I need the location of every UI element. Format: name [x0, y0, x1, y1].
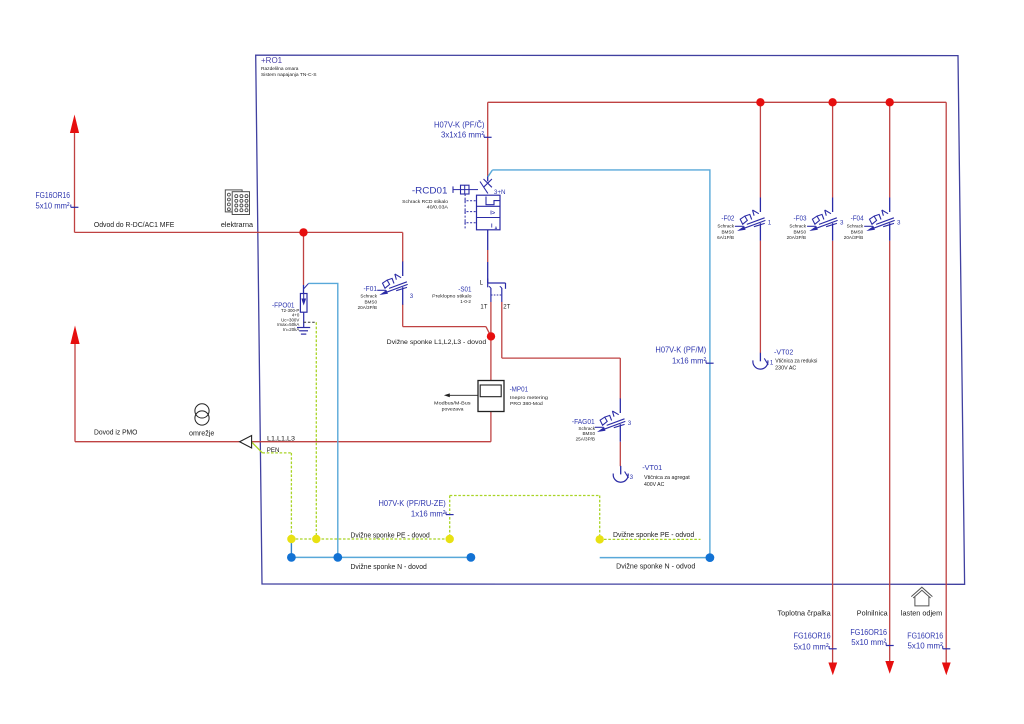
svg-text:povezava: povezava [442, 408, 464, 413]
svg-text:3+N: 3+N [494, 189, 506, 196]
svg-text:H07V-K (PF/RU-ZE): H07V-K (PF/RU-ZE) [379, 498, 446, 508]
svg-text:Toplotna črpalka: Toplotna črpalka [778, 611, 831, 618]
svg-text:PRO 380-Mod: PRO 380-Mod [510, 401, 543, 407]
svg-text:-S01: -S01 [458, 286, 471, 293]
svg-text:-VT02: -VT02 [774, 348, 793, 357]
svg-text:3: 3 [897, 219, 901, 226]
svg-text:BMS0: BMS0 [721, 230, 734, 235]
svg-text:Dovod iz PMO: Dovod iz PMO [94, 430, 138, 437]
svg-text:L1,L1,L3: L1,L1,L3 [267, 435, 295, 442]
svg-text:Dvižne sponke N - dovod: Dvižne sponke N - dovod [351, 564, 427, 571]
svg-text:Odvod do R-DC/AC1 MFE: Odvod do R-DC/AC1 MFE [94, 222, 175, 229]
svg-text:Vtičnica za reduksi: Vtičnica za reduksi [775, 358, 817, 364]
svg-text:L: L [480, 281, 484, 287]
svg-text:Dvižne sponke L1,L2,L3 - dovod: Dvižne sponke L1,L2,L3 - dovod [387, 339, 487, 346]
svg-text:lasten odjem: lasten odjem [901, 611, 942, 618]
svg-text:Dvižne sponke PE - odvod: Dvižne sponke PE - odvod [613, 532, 694, 539]
svg-text:20A/3P/B: 20A/3P/B [787, 235, 806, 240]
svg-text:1T: 1T [480, 305, 487, 311]
svg-text:FG16OR16: FG16OR16 [850, 627, 887, 637]
svg-text:3: 3 [630, 474, 634, 481]
svg-text:Schrack RCD stikalo: Schrack RCD stikalo [402, 199, 448, 205]
svg-text:5x10 mm²: 5x10 mm² [851, 637, 886, 647]
svg-text:I: I [491, 224, 493, 230]
svg-text:H07V-K (PF/Č): H07V-K (PF/Č) [434, 120, 485, 130]
svg-text:-MP01: -MP01 [510, 385, 528, 394]
svg-text:230V AC: 230V AC [775, 365, 796, 371]
svg-text:25A/3P/B: 25A/3P/B [576, 437, 595, 442]
svg-text:In=20kA: In=20kA [283, 327, 299, 332]
svg-text:-F04: -F04 [851, 216, 864, 223]
svg-text:1-0-2: 1-0-2 [460, 299, 471, 304]
svg-text:BMS0: BMS0 [851, 230, 864, 235]
svg-text:Sistem napajanja TN-C-S: Sistem napajanja TN-C-S [261, 72, 317, 77]
svg-text:omrežje: omrežje [189, 431, 214, 438]
svg-text:3: 3 [410, 293, 414, 300]
svg-text:5x10 mm²: 5x10 mm² [794, 641, 829, 651]
svg-text:Razdelilna omara: Razdelilna omara [261, 66, 299, 71]
svg-text:2T: 2T [503, 305, 510, 311]
svg-text:6A/1P/B: 6A/1P/B [717, 235, 734, 240]
svg-text:Δ: Δ [495, 226, 498, 230]
svg-text:5x10 mm²: 5x10 mm² [36, 201, 70, 211]
svg-text:3x1x16 mm²: 3x1x16 mm² [441, 130, 484, 140]
svg-text:-F03: -F03 [794, 216, 807, 223]
svg-text:Inepro metering: Inepro metering [510, 395, 548, 401]
svg-text:1: 1 [768, 219, 772, 226]
svg-text:BMS0: BMS0 [582, 431, 595, 436]
svg-text:-RCD01: -RCD01 [412, 186, 448, 196]
svg-text:5x10 mm²: 5x10 mm² [908, 641, 943, 651]
svg-text:20A/3P/B: 20A/3P/B [844, 235, 863, 240]
svg-text:elektrarna: elektrarna [221, 222, 253, 229]
svg-text:H07V-K (PF/M): H07V-K (PF/M) [655, 344, 706, 354]
svg-text:20A/3P/B: 20A/3P/B [358, 305, 377, 310]
svg-text:FG16OR16: FG16OR16 [907, 630, 943, 640]
svg-text:Schrack: Schrack [717, 223, 734, 228]
svg-text:-VT01: -VT01 [642, 463, 662, 472]
svg-text:BMS0: BMS0 [793, 230, 806, 235]
svg-text:FG16OR16: FG16OR16 [36, 190, 71, 200]
svg-text:Vtičnica za agregat: Vtičnica za agregat [644, 475, 690, 481]
svg-text:Dvižne sponke PE - dovod: Dvižne sponke PE - dovod [351, 533, 430, 540]
svg-text:1: 1 [770, 360, 774, 367]
svg-text:40/0.03A: 40/0.03A [427, 205, 449, 211]
svg-text:+RO1: +RO1 [261, 56, 283, 65]
svg-text:Schrack: Schrack [360, 293, 377, 298]
svg-text:-F01: -F01 [364, 286, 378, 293]
svg-text:Dvižne sponke N - odvod: Dvižne sponke N - odvod [616, 563, 695, 570]
svg-text:-F02: -F02 [721, 216, 734, 223]
svg-text:1x16 mm²: 1x16 mm² [672, 355, 706, 365]
svg-text:3: 3 [840, 219, 844, 226]
svg-text:PEN: PEN [267, 447, 280, 454]
svg-text:3: 3 [628, 420, 632, 427]
svg-text:Modbus/M-Bus: Modbus/M-Bus [434, 401, 471, 407]
svg-text:Schrack: Schrack [847, 223, 864, 228]
svg-text:FG16OR16: FG16OR16 [794, 631, 831, 641]
svg-text:Schrack: Schrack [789, 223, 806, 228]
svg-text:400V AC: 400V AC [644, 482, 664, 488]
svg-text:1x16 mm²: 1x16 mm² [411, 509, 446, 519]
svg-text:Polnilnica: Polnilnica [857, 611, 888, 618]
svg-text:I>: I> [490, 210, 495, 216]
svg-text:BMS0: BMS0 [364, 299, 377, 304]
